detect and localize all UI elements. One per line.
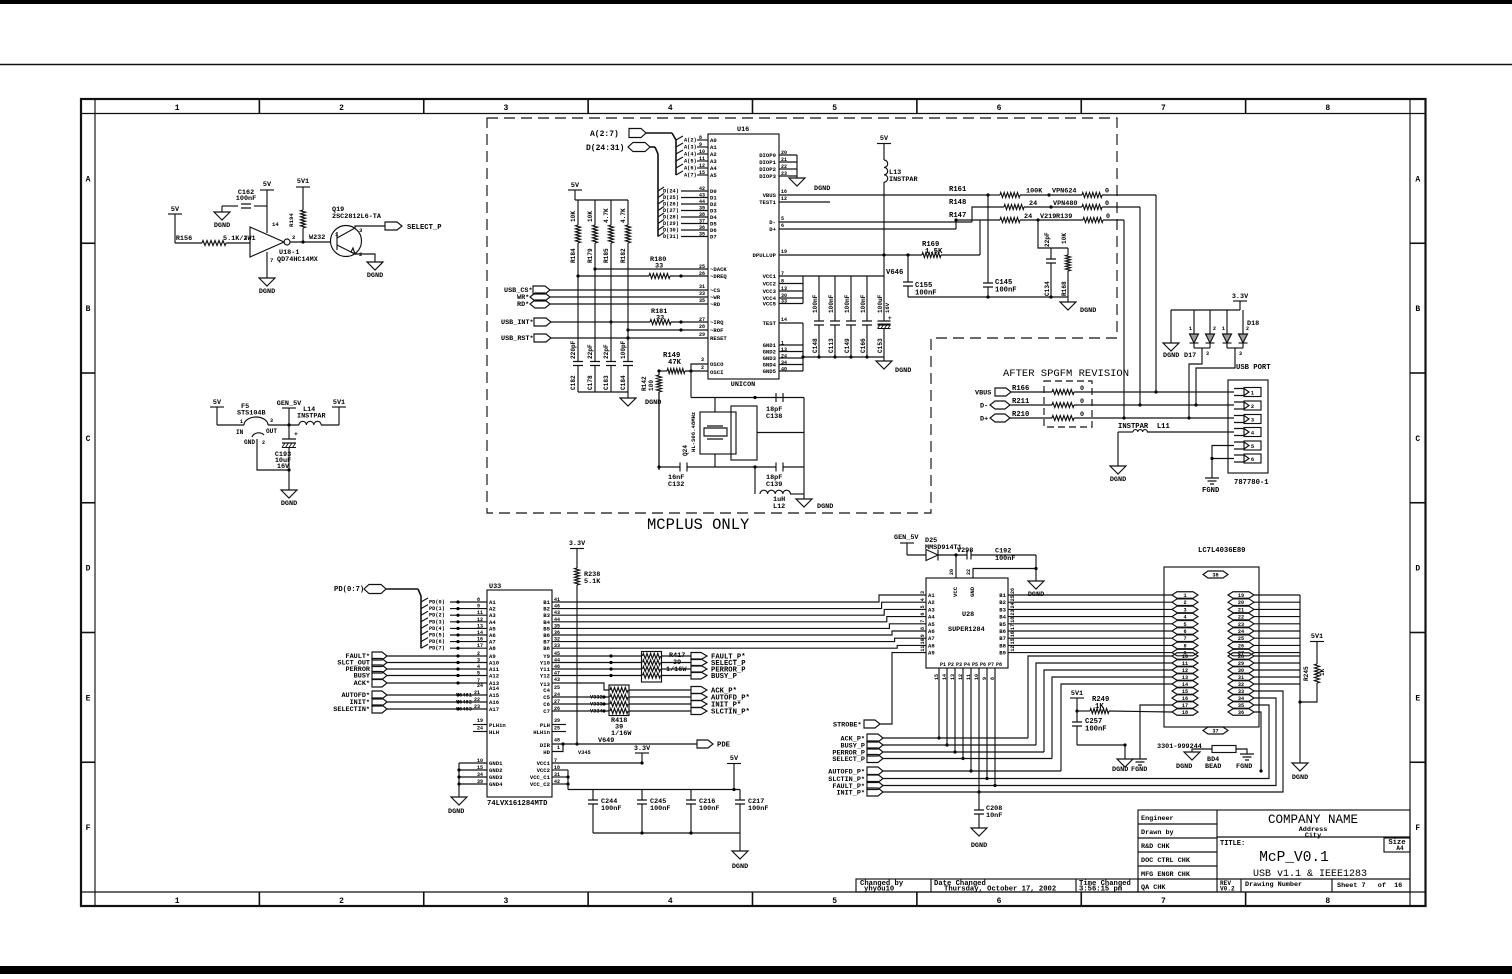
svg-text:10: 10 [920, 638, 926, 644]
svg-text:27: 27 [699, 317, 705, 323]
wire caps bottom rail U33 [593, 832, 740, 834]
svg-text:Sheet 7 of 16: Sheet 7 of 16 [1337, 882, 1402, 890]
svg-text:U16: U16 [737, 126, 749, 134]
wire 5V to fuse [217, 424, 244, 426]
svg-text:R168: R168 [1061, 281, 1068, 296]
svg-text:21: 21 [781, 157, 787, 163]
svg-text:26: 26 [1238, 643, 1244, 649]
svg-text:C166: C166 [860, 338, 867, 353]
svg-text:VCC2: VCC2 [537, 767, 551, 774]
pad 37 [1203, 727, 1228, 734]
svg-text:12: 12 [477, 617, 483, 623]
svg-text:A4: A4 [928, 614, 935, 621]
svg-text:35: 35 [699, 232, 705, 238]
wire DACK row [595, 268, 708, 270]
svg-text:VCC: VCC [952, 586, 959, 597]
ground DGND C193 [281, 490, 297, 498]
svg-text:1: 1 [1183, 593, 1186, 599]
svg-text:~RD: ~RD [710, 301, 721, 308]
svg-text:32: 32 [1238, 682, 1244, 688]
U16 pin D+ row [779, 228, 956, 230]
svg-text:21: 21 [1238, 607, 1244, 613]
svg-text:33: 33 [1238, 689, 1244, 695]
wire caps bottom rail [578, 391, 628, 393]
svg-text:C: C [1415, 435, 1420, 444]
svg-text:DGND: DGND [281, 500, 297, 508]
svg-text:1: 1 [781, 341, 784, 347]
svg-text:3: 3 [504, 104, 509, 113]
resistor network R418 39 1/16W [609, 685, 629, 716]
svg-text:A(2:7): A(2:7) [590, 130, 619, 139]
svg-text:A17: A17 [489, 706, 499, 713]
svg-text:100nF: 100nF [828, 294, 835, 313]
svg-text:GND1: GND1 [489, 760, 503, 767]
svg-text:HL-S06.48MHz: HL-S06.48MHz [690, 412, 697, 452]
svg-text:B8: B8 [999, 642, 1006, 649]
svg-text:3: 3 [1183, 607, 1186, 613]
svg-text:A: A [86, 175, 91, 184]
wire OSCO row [691, 364, 708, 371]
svg-text:22pF: 22pF [1044, 232, 1051, 247]
svg-text:39: 39 [699, 206, 705, 212]
svg-text:16V: 16V [884, 302, 891, 313]
svg-text:5.1K: 5.1K [584, 578, 601, 586]
svg-text:VCC2: VCC2 [763, 281, 777, 288]
svg-text:100uF: 100uF [877, 294, 884, 313]
svg-text:BUSY_P: BUSY_P [711, 673, 738, 681]
svg-text:DGND: DGND [1080, 307, 1096, 315]
svg-text:23: 23 [1010, 610, 1016, 616]
sheet border frame [81, 99, 1426, 906]
svg-text:D(27): D(27) [663, 208, 679, 214]
size box [1384, 838, 1410, 852]
svg-text:34: 34 [1238, 696, 1244, 702]
svg-text:A2: A2 [928, 599, 935, 606]
svg-text:PD(7): PD(7) [429, 646, 445, 652]
svg-text:2: 2 [477, 651, 480, 657]
U16 pin D- row [779, 221, 972, 223]
svg-text:P7: P7 [988, 662, 994, 668]
svg-text:P8: P8 [996, 662, 1002, 668]
capacitor C139 18pF [776, 463, 783, 472]
svg-text:City: City [1305, 832, 1321, 840]
svg-text:26: 26 [1010, 588, 1016, 594]
svg-text:C132: C132 [668, 481, 684, 489]
svg-text:12: 12 [1182, 668, 1188, 674]
svg-text:100nF: 100nF [915, 290, 937, 298]
ground DGND U33 [451, 797, 467, 805]
svg-text:COMPANY NAME: COMPANY NAME [1268, 813, 1358, 827]
svg-text:F: F [86, 824, 91, 833]
capacitor C192 100nF [967, 551, 971, 560]
svg-text:47K: 47K [668, 359, 682, 367]
svg-text:6: 6 [997, 897, 1002, 906]
svg-text:P6: P6 [980, 662, 986, 668]
svg-text:3: 3 [1206, 351, 1209, 357]
svg-text:8: 8 [1325, 104, 1330, 113]
wire OSC verticals to crystal [690, 371, 692, 398]
capacitor C145 100nF [987, 195, 989, 283]
svg-text:QD74HC14MX: QD74HC14MX [277, 256, 319, 264]
svg-text:TITLE:: TITLE: [1220, 840, 1245, 848]
svg-text:7: 7 [1183, 636, 1186, 642]
svg-text:HLHin: HLHin [533, 729, 550, 736]
svg-text:15: 15 [699, 170, 705, 176]
svg-text:5V: 5V [213, 399, 222, 407]
svg-text:PLHin: PLHin [489, 722, 506, 729]
svg-text:Y12: Y12 [540, 673, 551, 680]
wire pullup columns down to caps [577, 243, 579, 361]
svg-text:R245: R245 [1303, 666, 1310, 681]
svg-text:PD(5): PD(5) [429, 633, 445, 639]
svg-text:D(25): D(25) [663, 195, 679, 201]
svg-text:R179: R179 [587, 248, 594, 263]
svg-text:A1: A1 [710, 144, 717, 151]
svg-text:D(31): D(31) [663, 234, 679, 240]
svg-text:A(3): A(3) [684, 145, 697, 151]
svg-text:McP_V0.1: McP_V0.1 [1259, 850, 1329, 866]
svg-text:DIOP2: DIOP2 [759, 166, 776, 173]
svg-text:DPULLUP: DPULLUP [753, 252, 777, 259]
svg-text:PD(2): PD(2) [429, 613, 445, 619]
svg-text:12: 12 [781, 196, 787, 202]
svg-text:7: 7 [1161, 104, 1166, 113]
svg-text:4.7K: 4.7K [603, 208, 610, 223]
svg-text:A(4): A(4) [684, 152, 697, 158]
svg-text:INIT_P*: INIT_P* [836, 790, 865, 798]
capacitor C217 100nF [739, 790, 741, 801]
svg-text:FGND: FGND [1202, 487, 1220, 495]
svg-text:C139: C139 [766, 481, 782, 489]
svg-text:P4: P4 [964, 662, 970, 668]
svg-text:10K: 10K [570, 211, 577, 222]
svg-text:VPN624: VPN624 [1052, 188, 1076, 196]
wire GND pin 22 [973, 569, 1036, 579]
svg-text:D(26): D(26) [663, 202, 679, 208]
svg-text:RESET: RESET [710, 335, 727, 342]
svg-text:5: 5 [1183, 622, 1186, 628]
top black bar [0, 0, 1512, 4]
svg-text:5V: 5V [730, 755, 739, 763]
connector right pads ground bus [1254, 594, 1300, 596]
svg-text:7: 7 [920, 620, 926, 623]
svg-text:DIOP0: DIOP0 [759, 152, 776, 159]
svg-text:30: 30 [1238, 668, 1244, 674]
svg-text:C178: C178 [587, 375, 594, 390]
svg-text:DGND: DGND [1176, 763, 1192, 771]
connector PDE [697, 740, 713, 748]
svg-text:DGND: DGND [817, 503, 833, 511]
svg-text:100nF: 100nF [601, 805, 621, 813]
svg-text:DGND: DGND [214, 222, 230, 230]
ground DGND R245 [1292, 763, 1308, 771]
svg-text:100: 100 [648, 380, 655, 391]
svg-text:38: 38 [1212, 573, 1218, 579]
svg-text:R185: R185 [603, 248, 610, 263]
svg-text:A14: A14 [489, 685, 500, 692]
svg-text:VCC5: VCC5 [763, 301, 777, 308]
svg-text:13: 13 [477, 623, 483, 629]
svg-text:100K: 100K [1026, 188, 1043, 196]
svg-text:16: 16 [477, 637, 483, 643]
svg-text:8: 8 [699, 135, 702, 141]
svg-text:29: 29 [1238, 661, 1244, 667]
svg-text:INSTPAR: INSTPAR [889, 176, 918, 184]
svg-text:1.5K: 1.5K [925, 248, 943, 256]
svg-text:13: 13 [1182, 675, 1188, 681]
pad 38 [1203, 571, 1228, 578]
svg-text:A3: A3 [710, 158, 717, 165]
svg-text:R211: R211 [1012, 398, 1030, 406]
svg-text:100nF: 100nF [995, 287, 1017, 295]
svg-text:20: 20 [1238, 600, 1244, 606]
svg-text:V6483: V6483 [456, 707, 472, 713]
rev / drawing number / sheet strip [1217, 878, 1410, 880]
svg-text:FGND: FGND [1236, 763, 1252, 771]
capacitor C134 22pF [1038, 220, 1068, 248]
svg-text:100nF: 100nF [699, 805, 719, 813]
svg-text:16: 16 [1010, 631, 1016, 637]
svg-text:100nF: 100nF [844, 294, 851, 313]
svg-text:25: 25 [1238, 636, 1244, 642]
svg-text:~DREQ: ~DREQ [710, 273, 727, 280]
svg-text:SELECT_P: SELECT_P [407, 224, 442, 232]
ground DGND U16 caps [876, 361, 892, 369]
svg-text:C183: C183 [603, 375, 610, 390]
svg-text:GND: GND [969, 586, 976, 597]
svg-text:OSCO: OSCO [710, 361, 724, 368]
svg-text:R184: R184 [570, 248, 577, 263]
svg-text:24: 24 [477, 683, 483, 689]
svg-text:STROBE*: STROBE* [833, 722, 862, 730]
svg-text:P2: P2 [948, 662, 954, 668]
svg-text:20: 20 [781, 150, 787, 156]
svg-text:C: C [86, 435, 91, 444]
U16 pin DPULLUP row [779, 254, 922, 256]
svg-text:V332: V332 [590, 695, 603, 701]
svg-text:PD(6): PD(6) [429, 639, 445, 645]
svg-text:100nF: 100nF [812, 294, 819, 313]
svg-text:A(2): A(2) [684, 138, 697, 144]
svg-text:3: 3 [701, 357, 704, 363]
ground DGND diodes [1163, 343, 1179, 351]
svg-text:VCC1: VCC1 [537, 760, 551, 767]
svg-text:40: 40 [781, 367, 787, 373]
svg-text:10K: 10K [587, 211, 594, 222]
svg-text:6: 6 [1251, 457, 1254, 463]
svg-text:5V: 5V [171, 206, 180, 214]
wire staircase to connector pads 10-13 [1028, 656, 1172, 738]
svg-text:DGND: DGND [259, 288, 275, 296]
svg-text:22: 22 [966, 569, 972, 575]
svg-text:PD(4): PD(4) [429, 626, 445, 632]
svg-text:Engineer: Engineer [1141, 815, 1174, 823]
svg-text:D-: D- [980, 403, 988, 411]
svg-text:~IRQ: ~IRQ [710, 319, 724, 326]
svg-text:3: 3 [1251, 418, 1254, 424]
svg-text:VCC1: VCC1 [763, 273, 777, 280]
svg-text:5V1: 5V1 [1311, 633, 1323, 641]
svg-text:OSCI: OSCI [710, 369, 723, 376]
svg-text:19: 19 [781, 249, 787, 255]
svg-text:B6: B6 [999, 628, 1006, 635]
svg-text:VBUS: VBUS [763, 192, 777, 199]
svg-text:11: 11 [920, 646, 926, 652]
capacitor C132 16nF [658, 392, 660, 467]
svg-text:DGND: DGND [1112, 766, 1128, 774]
svg-text:2: 2 [1251, 404, 1254, 410]
svg-text:26: 26 [699, 271, 705, 277]
svg-text:1/16W: 1/16W [666, 666, 687, 674]
svg-text:MCPLUS ONLY: MCPLUS ONLY [647, 516, 750, 534]
ground FGND bead area [1133, 759, 1147, 765]
wire U28 B outputs to connector [1008, 594, 1172, 596]
ground DGND L11 [1110, 466, 1126, 474]
svg-text:23: 23 [474, 704, 480, 710]
svg-text:DGND: DGND [1028, 591, 1044, 599]
capacitor C257 100nF [1072, 722, 1082, 726]
svg-text:LC7L4036E89: LC7L4036E89 [1198, 547, 1245, 555]
svg-text:C184: C184 [620, 375, 627, 390]
bus fan A to U16 [672, 133, 676, 175]
svg-text:9: 9 [920, 634, 926, 637]
svg-text:24: 24 [477, 726, 483, 732]
header rule [0, 64, 1512, 66]
wire VBUS riser to port [1155, 195, 1157, 392]
svg-text:8: 8 [920, 627, 926, 630]
svg-text:3: 3 [1239, 351, 1242, 357]
svg-text:5: 5 [477, 671, 480, 677]
company name [1217, 836, 1410, 838]
svg-text:1: 1 [557, 745, 560, 751]
svg-text:W232: W232 [309, 234, 325, 242]
wire shield pins to FGND [1212, 446, 1234, 479]
svg-text:VBUS: VBUS [975, 390, 991, 398]
svg-text:C153: C153 [877, 338, 884, 353]
svg-text:23: 23 [781, 171, 787, 177]
svg-text:1: 1 [1251, 391, 1254, 397]
op-amp U18-1 inverter QD74HC14MX [250, 227, 284, 257]
svg-text:5: 5 [920, 605, 926, 608]
svg-text:24: 24 [1238, 629, 1244, 635]
svg-text:4: 4 [668, 897, 673, 906]
svg-text:A(5): A(5) [684, 159, 697, 165]
svg-text:R210: R210 [1012, 411, 1029, 419]
svg-text:33: 33 [699, 291, 705, 297]
svg-text:SUPER1284: SUPER1284 [948, 626, 985, 634]
svg-text:A(6): A(6) [684, 166, 697, 172]
svg-text:48: 48 [554, 738, 560, 744]
resistor R168 10K [1067, 248, 1069, 255]
svg-text:A9: A9 [928, 650, 935, 657]
svg-text:DGND: DGND [367, 272, 383, 280]
svg-text:43: 43 [554, 677, 560, 683]
svg-text:IN: IN [236, 429, 244, 436]
wire inverter output to Q19 [290, 241, 331, 243]
svg-text:35: 35 [1238, 703, 1244, 709]
bottom black bar [0, 966, 1512, 974]
svg-text:R156: R156 [176, 235, 192, 243]
wire D- riser to port [1139, 207, 1141, 405]
wire R156 row [175, 242, 202, 244]
svg-text:4: 4 [477, 664, 480, 670]
svg-text:A16: A16 [489, 699, 500, 706]
svg-text:10nF: 10nF [986, 812, 1002, 820]
svg-text:5V: 5V [263, 181, 272, 189]
svg-text:Drawn by: Drawn by [1141, 829, 1174, 837]
svg-text:GND2: GND2 [489, 767, 503, 774]
connector right pads 19-36 [1228, 592, 1254, 599]
svg-text:24: 24 [781, 354, 787, 360]
svg-text:V333: V333 [590, 702, 603, 708]
svg-text:A5: A5 [710, 172, 717, 179]
svg-text:4: 4 [920, 598, 926, 601]
svg-text:Q24: Q24 [682, 445, 689, 456]
svg-text:VCC_C2: VCC_C2 [530, 781, 551, 788]
svg-text:C113: C113 [828, 338, 835, 353]
svg-text:VCC3: VCC3 [763, 288, 777, 295]
svg-text:0: 0 [1105, 188, 1109, 196]
svg-text:R161: R161 [949, 186, 967, 194]
svg-text:DGND: DGND [895, 367, 911, 375]
wire crystal ground vertical [803, 398, 805, 500]
svg-text:E: E [1415, 694, 1420, 703]
svg-text:A7: A7 [928, 635, 935, 642]
svg-text:B4: B4 [999, 614, 1006, 621]
svg-text:A4: A4 [710, 165, 717, 172]
svg-text:25: 25 [554, 685, 560, 691]
changed-by strip [856, 879, 1138, 892]
svg-text:19: 19 [477, 718, 483, 724]
svg-text:RD*: RD* [517, 301, 529, 309]
svg-text:PD(0:7): PD(0:7) [334, 586, 364, 594]
svg-text:SLCTIN_P*: SLCTIN_P* [711, 709, 750, 717]
connector SELECT_P output [385, 222, 402, 230]
ground DGND crystal [796, 499, 812, 507]
wire pad 17 to FGND [1140, 705, 1172, 759]
svg-text:A(7): A(7) [684, 173, 697, 179]
svg-text:~DACK: ~DACK [710, 266, 727, 273]
svg-text:STS104B: STS104B [237, 410, 266, 418]
svg-text:HD: HD [543, 749, 550, 756]
svg-text:6: 6 [1183, 629, 1186, 635]
svg-text:R194: R194 [288, 213, 295, 227]
svg-text:36: 36 [699, 225, 705, 231]
svg-text:GND4: GND4 [489, 781, 503, 788]
svg-text:5.1K/2W1: 5.1K/2W1 [223, 235, 256, 243]
svg-text:A1: A1 [928, 592, 935, 599]
svg-text:C149: C149 [844, 338, 851, 353]
svg-text:787780-1: 787780-1 [1234, 479, 1269, 487]
svg-text:17: 17 [477, 643, 483, 649]
connector left pads 1-18 [1172, 592, 1198, 599]
svg-text:USB v1.1 & IEEE1283: USB v1.1 & IEEE1283 [1253, 869, 1367, 880]
svg-text:22pF: 22pF [587, 344, 594, 359]
decoupling caps C148 C113 C149 C166 [818, 276, 820, 321]
ground DGND U33 caps [732, 851, 748, 859]
wire VCC rows to cap rail [552, 769, 568, 771]
svg-text:20: 20 [949, 569, 955, 575]
svg-text:33: 33 [655, 263, 663, 271]
svg-text:C148: C148 [812, 338, 819, 353]
svg-text:8: 8 [1183, 643, 1186, 649]
svg-text:9: 9 [477, 604, 480, 610]
svg-text:U28: U28 [962, 611, 974, 619]
svg-text:22: 22 [474, 697, 480, 703]
svg-text:MFG ENGR CHK: MFG ENGR CHK [1141, 871, 1191, 879]
svg-text:36: 36 [1238, 710, 1244, 716]
svg-text:GND5: GND5 [763, 368, 777, 375]
